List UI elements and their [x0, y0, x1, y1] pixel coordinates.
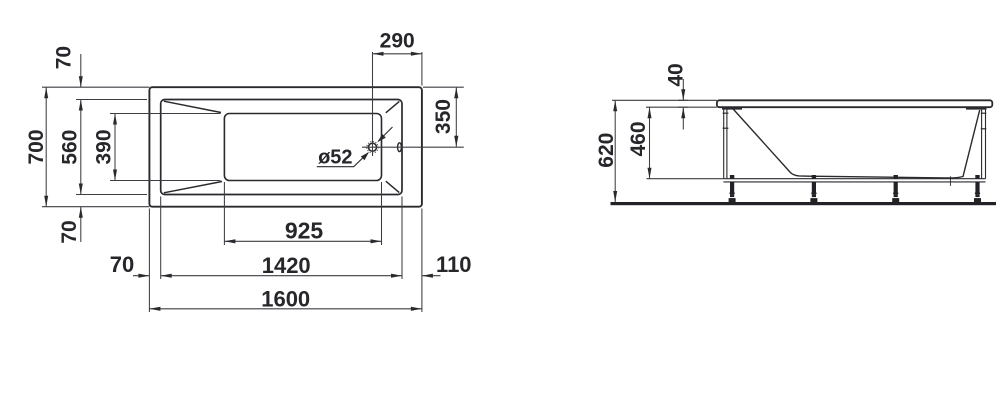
svg-text:ø52: ø52: [318, 147, 352, 169]
svg-text:350: 350: [432, 99, 455, 134]
svg-text:560: 560: [58, 130, 81, 165]
svg-text:620: 620: [595, 133, 618, 168]
svg-text:1600: 1600: [261, 287, 310, 312]
svg-text:460: 460: [627, 121, 650, 156]
svg-text:700: 700: [25, 129, 48, 164]
svg-text:390: 390: [92, 129, 115, 164]
svg-text:1420: 1420: [262, 253, 311, 278]
svg-text:70: 70: [110, 252, 134, 277]
svg-text:110: 110: [436, 252, 472, 277]
svg-text:40: 40: [665, 63, 688, 86]
svg-text:925: 925: [285, 218, 324, 244]
svg-text:70: 70: [53, 46, 76, 69]
svg-text:70: 70: [58, 220, 81, 243]
svg-text:290: 290: [380, 30, 415, 53]
